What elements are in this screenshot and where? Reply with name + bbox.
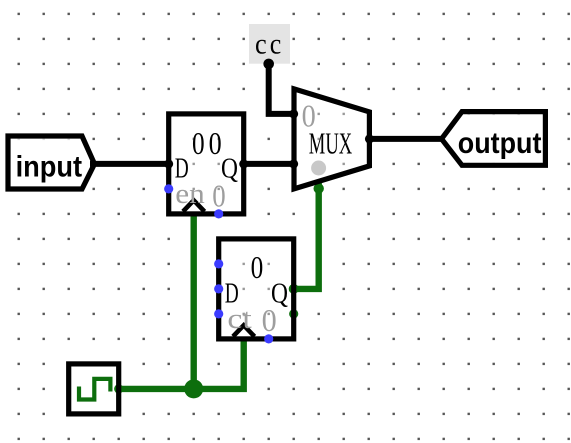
svg-text:0: 0 xyxy=(209,127,222,162)
svg-text:0: 0 xyxy=(302,98,316,134)
svg-text:en: en xyxy=(175,180,205,210)
svg-text:c: c xyxy=(270,28,282,61)
svg-text:output: output xyxy=(458,127,542,161)
svg-text:0: 0 xyxy=(212,179,225,214)
svg-text:0: 0 xyxy=(251,250,264,285)
svg-text:c: c xyxy=(255,28,267,61)
svg-text:ct: ct xyxy=(227,303,252,335)
svg-text:input: input xyxy=(16,150,83,184)
svg-text:0: 0 xyxy=(262,302,277,338)
svg-text:0: 0 xyxy=(192,126,205,161)
